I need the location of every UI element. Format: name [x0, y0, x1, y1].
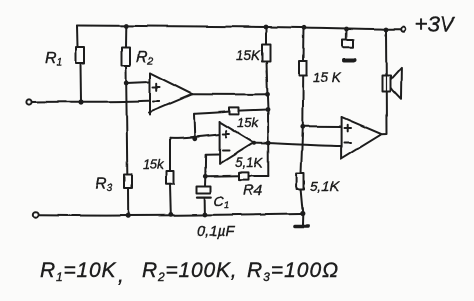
- node top rail speaker: [384, 28, 389, 33]
- wire input to op-amp U1 inverting input: [32, 101, 148, 102]
- svg-text:15K: 15K: [236, 48, 261, 63]
- svg-text:+3V: +3V: [415, 13, 457, 37]
- svg-text:R1=10K: R1=10K: [40, 259, 116, 284]
- wire U3 non-inverting input: [303, 125, 342, 127]
- wire divider junction to U1 non-inverting input: [126, 82, 149, 83]
- resistor R2: [122, 27, 130, 84]
- svg-text:0,1µF: 0,1µF: [197, 224, 236, 240]
- node R2 bottom: [124, 81, 129, 86]
- svg-text:15k: 15k: [143, 157, 165, 172]
- resistor 5.1K lower right: [297, 173, 304, 214]
- op-amp U2: [220, 122, 254, 164]
- node feedback join: [266, 107, 271, 112]
- capacitor C2 decoupling: [343, 29, 355, 60]
- svg-text:,: ,: [118, 264, 124, 287]
- node top rail pull-up: [264, 25, 269, 30]
- svg-text:R3=100Ω: R3=100Ω: [247, 259, 339, 284]
- svg-text:15 K: 15 K: [313, 70, 342, 85]
- wire R2/R3 divider down to R3: [126, 83, 127, 174]
- svg-text:R3: R3: [95, 176, 113, 194]
- ground: [295, 214, 309, 227]
- op-amp U1: [149, 73, 192, 115]
- svg-text:5,1K: 5,1K: [235, 155, 264, 170]
- resistor R3: [124, 174, 132, 215]
- wire +3V rail to pull-up resistor: [265, 27, 267, 44]
- capacitor C1: [197, 176, 212, 215]
- node C1 bottom rail: [203, 213, 208, 218]
- wire U2 non-inverting node: [170, 135, 219, 138]
- wire node to 5.1K lower: [301, 126, 303, 173]
- node C1 top: [203, 174, 208, 179]
- node ground junction: [300, 211, 305, 216]
- node top rail cap: [344, 27, 349, 32]
- node top rail divider: [302, 25, 307, 30]
- svg-text:C1: C1: [214, 193, 229, 210]
- resistor R1: [76, 26, 84, 103]
- node U2 apex: [252, 141, 256, 145]
- wire divider branch right: [303, 27, 306, 61]
- svg-text:R2=100K,: R2=100K,: [142, 259, 237, 284]
- node input terminal upper: [27, 99, 32, 104]
- node top rail R2: [124, 24, 129, 29]
- wire U1 output: [192, 93, 267, 95]
- node U2 output: [266, 141, 271, 146]
- wire output node down: [266, 94, 269, 176]
- label formula R1 R2 R3 values: [40, 259, 339, 287]
- wire U2 output to U3 inverting input: [254, 143, 342, 146]
- resistor 15k to ground (left): [167, 138, 174, 215]
- node R1 bottom: [78, 99, 83, 104]
- wire bottom ground rail: [38, 214, 303, 216]
- node U3 plus input: [300, 124, 305, 129]
- op-amp U3: [342, 117, 382, 159]
- node U2 plus input: [192, 136, 197, 141]
- svg-text:R4: R4: [243, 182, 262, 199]
- node R3 bottom rail: [126, 213, 131, 218]
- wire top supply rail: [77, 26, 401, 30]
- svg-text:15k: 15k: [237, 115, 259, 130]
- resistor R4 5.1K: [205, 172, 268, 179]
- node 15k bottom rail: [168, 212, 173, 217]
- resistor 15K right divider: [300, 61, 308, 126]
- svg-text:5,1K: 5,1K: [310, 178, 339, 194]
- svg-text:R1: R1: [45, 50, 62, 68]
- node +3V terminal: [401, 27, 406, 32]
- speaker LS1: [383, 30, 402, 99]
- svg-text:R2: R2: [136, 49, 154, 67]
- node U1 output: [265, 92, 270, 97]
- wire U2 inverting input: [205, 155, 219, 177]
- resistor 15K pull-up: [262, 44, 270, 94]
- node input terminal lower: [33, 212, 38, 217]
- wire U3 output up to speaker: [382, 92, 387, 135]
- resistor 15k feedback (U2): [194, 107, 268, 138]
